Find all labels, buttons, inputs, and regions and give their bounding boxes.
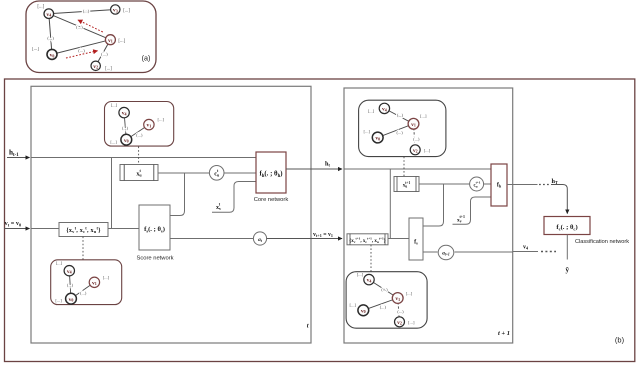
svg-text:(...): (...): [136, 133, 143, 138]
svg-text:fs(. ; θs): fs(. ; θs): [144, 226, 165, 233]
time-step t+1 box: [344, 88, 513, 343]
wire v_t input arrow: [4, 228, 30, 230]
svg-text:v0: v0: [361, 308, 366, 314]
node v2 snapshot t+1 bottom: [395, 317, 405, 327]
svg-text:v0: v0: [124, 138, 129, 144]
panel (a) rounded frame: [26, 1, 156, 73]
svg-text:[...]: [...]: [105, 67, 112, 72]
svg-text:(...): (...): [122, 125, 129, 130]
feature set box {x_v,x_c,x_u}: [59, 223, 108, 237]
time-step t box: [31, 86, 311, 343]
node a_t: [253, 232, 266, 245]
wire edge v1-v2: [96, 40, 111, 66]
node c_u^{t+1}: [470, 177, 484, 191]
svg-text:[...]: [...]: [55, 298, 62, 303]
svg-text:(b): (b): [615, 336, 625, 345]
svg-text:Classification network: Classification network: [575, 239, 629, 245]
svg-text:v2: v2: [397, 320, 402, 326]
x_u^t vector box: [120, 165, 158, 181]
wire h_{t-1} to core network: [31, 157, 256, 159]
svg-text:v2: v2: [413, 148, 418, 154]
svg-text:v1: v1: [147, 123, 152, 129]
svg-text:v1: v1: [395, 296, 400, 302]
svg-text:v4: v4: [122, 111, 127, 117]
panel (b) outer frame: [5, 79, 635, 362]
wire edge v1-v2 snapshot t+1 top: [414, 124, 416, 150]
svg-text:v4: v4: [523, 245, 528, 251]
wire f_h output h_t: [286, 168, 342, 170]
wire v_t to feature set box: [31, 228, 59, 230]
svg-text:t + 1: t + 1: [498, 330, 510, 337]
classification network box f_c: [544, 217, 590, 235]
svg-text:[...]: [...]: [158, 117, 165, 122]
node v1 snapshot t+1 top: [408, 118, 419, 129]
wire h branch down t+1: [389, 169, 391, 239]
red dashed arrow toward v1: [66, 51, 98, 58]
wire c_u to core network: [224, 172, 256, 174]
svg-text:(...): (...): [101, 51, 108, 56]
svg-text:(...): (...): [67, 282, 74, 287]
graph snapshot t+1 (top) frame: [359, 100, 446, 156]
wire edge v0-v1: [52, 40, 110, 55]
score network box f_s: [139, 205, 170, 250]
node a_{t+1}: [438, 245, 454, 259]
wire score output up-join t+1: [423, 184, 444, 226]
svg-text:[...]: [...]: [56, 260, 63, 265]
node v0 snapshot t bottom: [66, 293, 77, 304]
svg-text:[...]: [...]: [420, 113, 427, 118]
svg-text:(...): (...): [78, 48, 85, 53]
wire edge v0-v1 snapshot t+1 top: [378, 124, 414, 138]
svg-text:[...]: [...]: [424, 148, 431, 153]
wire edge v4-v0 snapshot t bottom: [69, 271, 71, 299]
wire h_{t-1} input arrow: [7, 157, 30, 159]
wire c_u to core t+1: [484, 183, 492, 185]
red dashed arrow toward v4: [78, 20, 103, 32]
graph snapshot t (top) frame: [105, 102, 174, 147]
svg-text:[...]: [...]: [110, 140, 117, 145]
wire edge v4-v0 snapshot t top: [124, 113, 126, 140]
svg-text:v0: v0: [50, 53, 55, 59]
wire score output up-join: [170, 173, 185, 216]
node v2 (a): [91, 61, 100, 70]
wire a_{t+1} out: [455, 251, 513, 253]
wire edge v4-v1 snapshot t+1 bottom: [369, 280, 398, 298]
svg-text:[...]: [...]: [37, 5, 44, 10]
node v4 snapshot t+1 top: [379, 103, 389, 113]
svg-text:(...): (...): [380, 304, 387, 309]
wire x_v to core network: [212, 182, 256, 213]
svg-text:(...): (...): [76, 24, 83, 29]
svg-text:[...]: [...]: [357, 272, 364, 277]
svg-text:(...): (...): [47, 35, 54, 40]
svg-text:ŷ: ŷ: [566, 266, 570, 274]
wire x_u to c_u t+1: [419, 183, 470, 185]
score network box f_s t+1: [409, 218, 423, 260]
wire h_T out: [507, 184, 538, 186]
svg-text:v0: v0: [69, 297, 74, 303]
node v4 snapshot t bottom: [64, 266, 74, 276]
node v3 (a): [111, 5, 120, 14]
svg-text:Score network: Score network: [136, 256, 173, 262]
svg-text:[...]: [...]: [364, 129, 371, 134]
node c_u^t: [209, 166, 224, 181]
svg-text:fh: fh: [497, 183, 502, 189]
wire edge v0-v1 snapshot t top: [126, 125, 149, 140]
x_u^{t+1} vector box: [394, 177, 419, 192]
dotted link feature set t+1 to snapshot below: [370, 245, 372, 272]
wire edge v1-v2 snapshot t+1 bottom: [398, 298, 400, 322]
wire feature set to score t+1: [388, 238, 409, 240]
wire edge v4-v1 snapshot t+1 top: [384, 108, 413, 123]
svg-text:vt+1 = v1: vt+1 = v1: [313, 232, 333, 238]
svg-text:v4: v4: [382, 107, 387, 113]
node v4 (a): [44, 9, 54, 19]
node v0 snapshot t+1 top: [372, 132, 383, 143]
svg-text:(...): (...): [413, 136, 420, 141]
wire classifier to prediction: [566, 235, 568, 260]
svg-text:v4: v4: [46, 12, 51, 18]
graph snapshot t+1 (bottom) frame: [346, 272, 427, 329]
svg-text:v4: v4: [367, 278, 372, 284]
wire a_t to next step: [267, 238, 342, 240]
svg-text:t: t: [307, 323, 309, 330]
wire h_T corner into classifier: [551, 185, 567, 214]
svg-text:(...): (...): [397, 113, 404, 118]
wire edge v4-v1: [49, 14, 111, 40]
wire v_4 out continuation: [513, 251, 538, 253]
svg-text:[...]: [...]: [123, 9, 130, 14]
wire edge v4-v3: [49, 10, 116, 14]
wire x_u to c_u: [158, 172, 210, 174]
svg-text:[...]: [...]: [32, 47, 39, 52]
node v0 snapshot t+1 bottom: [358, 305, 369, 316]
wire score to a_{t+1}: [423, 251, 438, 253]
node v1 snapshot t top: [144, 119, 154, 129]
svg-text:[...]: [...]: [406, 291, 413, 296]
svg-text:[...]: [...]: [111, 102, 118, 107]
svg-text:(...): (...): [396, 130, 403, 135]
wire edge v0-v1 snapshot t+1 bottom: [363, 298, 397, 310]
svg-text:v2: v2: [93, 64, 98, 70]
svg-text:[...]: [...]: [350, 303, 357, 308]
svg-text:(...): (...): [381, 287, 388, 292]
svg-text:v1: v1: [411, 122, 416, 128]
wire edge v0-v1 snapshot t bottom: [71, 282, 94, 298]
svg-text:[...]: [...]: [118, 39, 125, 44]
dotted link snapshot t to x_u box: [138, 147, 140, 165]
node v4 snapshot t top: [119, 107, 129, 117]
wire edge v4-v0: [49, 14, 52, 55]
svg-text:v0: v0: [375, 136, 380, 142]
svg-text:fs: fs: [414, 240, 418, 246]
svg-text:[...]: [...]: [408, 320, 415, 325]
dotted link snapshot t+1 to x_u box: [403, 157, 405, 177]
wire feature set to score network: [108, 228, 139, 230]
svg-text:v1: v1: [108, 38, 113, 44]
svg-text:(...): (...): [80, 291, 87, 296]
wire x_v to core t+1: [453, 197, 492, 224]
feature set box t+1: [347, 234, 388, 245]
svg-text:v1: v1: [92, 280, 97, 286]
svg-text:(...): (...): [397, 309, 404, 314]
node v1 (a): [105, 35, 115, 45]
wire h_t to core t+1: [344, 168, 491, 170]
node v4 snapshot t+1 bottom: [364, 274, 374, 284]
svg-text:Core network: Core network: [254, 197, 289, 203]
core network box f_h: [256, 152, 286, 193]
graph snapshot t (bottom) frame: [51, 260, 122, 305]
node v1 snapshot t bottom: [89, 277, 99, 287]
node v2 snapshot t+1 top: [410, 145, 420, 155]
dotted link feature set to snapshot below: [82, 237, 84, 260]
wire h branch down to score path: [111, 158, 113, 229]
svg-text:v4: v4: [67, 269, 72, 275]
svg-text:[...]: [...]: [103, 275, 110, 280]
node v0 (a): [47, 49, 57, 59]
core network box f_h t+1: [491, 164, 507, 206]
node v0 snapshot t top: [121, 134, 132, 145]
svg-text:(...): (...): [83, 8, 90, 13]
svg-text:[...]: [...]: [368, 109, 375, 114]
node v1 snapshot t+1 bottom: [392, 293, 403, 304]
svg-text:(a): (a): [142, 54, 151, 63]
wire score to a_t: [170, 238, 254, 240]
svg-text:v3: v3: [113, 8, 118, 14]
